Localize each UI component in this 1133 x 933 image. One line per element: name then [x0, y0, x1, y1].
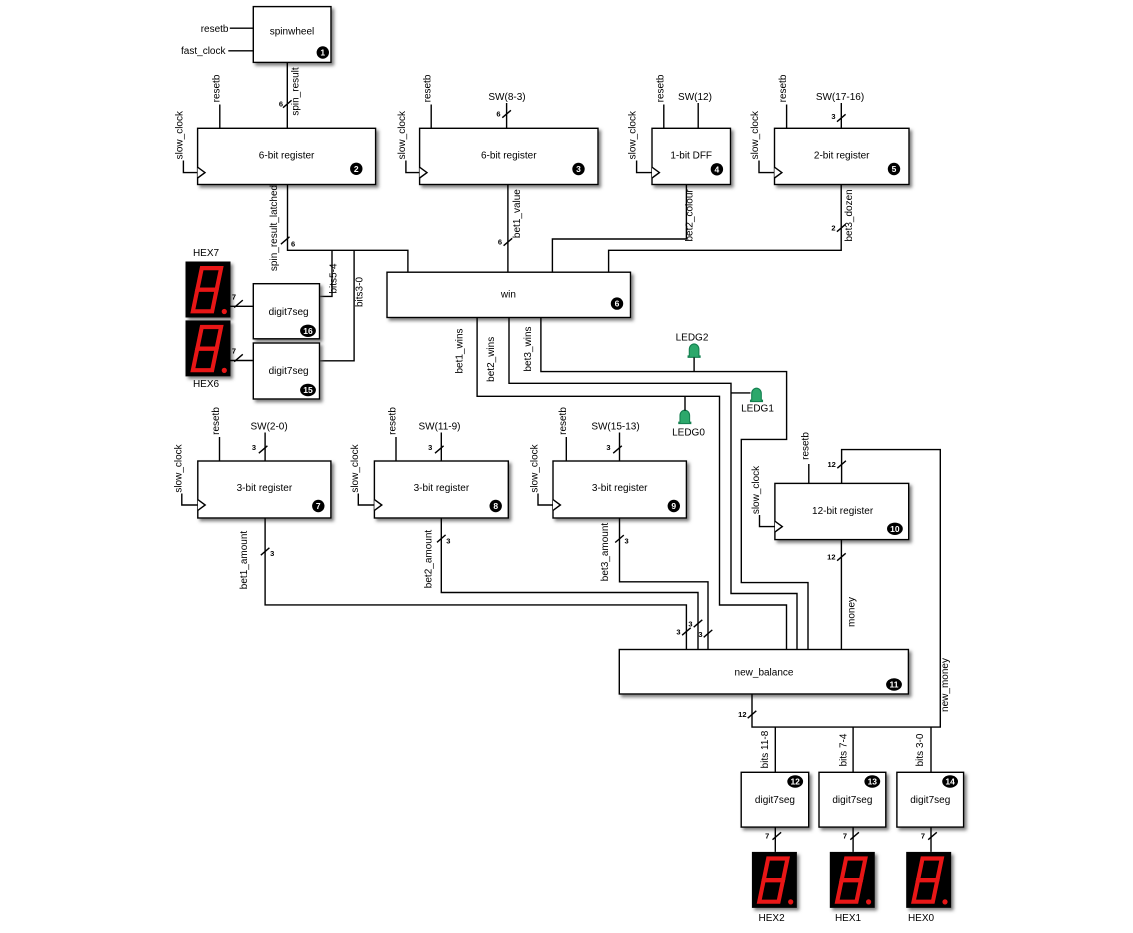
- svg-text:slow_clock: slow_clock: [174, 110, 185, 159]
- svg-text:digit7seg: digit7seg: [910, 795, 950, 806]
- svg-text:spin_result: spin_result: [290, 67, 301, 116]
- svg-text:13: 13: [868, 777, 878, 787]
- wire digit7seg to HEX display (bus 7): [921, 827, 937, 852]
- wire bits 7-4 tap: [838, 727, 853, 772]
- input SW(15-13) (bus 3): [591, 422, 639, 462]
- svg-text:resetb: resetb: [211, 74, 222, 102]
- svg-text:7: 7: [232, 293, 236, 302]
- svg-text:bet2_wins: bet2_wins: [486, 337, 497, 382]
- svg-text:12: 12: [738, 710, 746, 719]
- svg-text:digit7seg: digit7seg: [755, 795, 795, 806]
- block U12 digit7seg: [741, 772, 809, 827]
- svg-text:3: 3: [831, 112, 835, 121]
- svg-text:new_balance: new_balance: [735, 667, 794, 678]
- svg-text:digit7seg: digit7seg: [269, 307, 309, 318]
- reset input resetb (U5): [778, 74, 789, 128]
- svg-text:7: 7: [765, 832, 769, 841]
- wire bits 3-0 tap: [915, 727, 931, 772]
- svg-text:digit7seg: digit7seg: [269, 366, 309, 377]
- svg-text:resetb: resetb: [201, 24, 229, 35]
- wire spin_result_latched (bus 6): [269, 185, 408, 273]
- svg-text:12: 12: [827, 553, 835, 562]
- clock input slow_clock (U5): [750, 110, 775, 173]
- wire bet2_colour: [552, 185, 695, 273]
- clock input slow_clock (U10): [751, 465, 775, 527]
- clock input slow_clock (U3): [397, 110, 420, 173]
- clock input slow_clock (U4): [628, 110, 652, 173]
- wire digit7seg to HEX display (bus 7): [765, 827, 781, 852]
- svg-text:resetb: resetb: [388, 407, 399, 435]
- input SW(17-16) (bus): [816, 92, 864, 128]
- wire bet1_wins: [454, 318, 786, 650]
- svg-text:3: 3: [576, 164, 581, 174]
- wire bet2_wins: [486, 318, 797, 650]
- svg-text:resetb: resetb: [211, 407, 222, 435]
- svg-text:bits 11-8: bits 11-8: [760, 730, 771, 768]
- svg-text:bet1_value: bet1_value: [512, 189, 523, 238]
- svg-text:7: 7: [921, 832, 925, 841]
- svg-text:15: 15: [303, 385, 313, 395]
- svg-text:3: 3: [606, 443, 610, 452]
- svg-text:8: 8: [493, 501, 498, 511]
- wire bet3_wins: [523, 318, 808, 650]
- block U13 digit7seg: [819, 772, 886, 827]
- wire bits 11-8 tap: [760, 727, 775, 772]
- svg-text:HEX6: HEX6: [193, 379, 220, 390]
- svg-text:digit7seg: digit7seg: [832, 795, 872, 806]
- block U15 digit7seg: [253, 343, 319, 399]
- svg-text:SW(15-13): SW(15-13): [591, 422, 639, 433]
- svg-text:bet1_amount: bet1_amount: [239, 531, 250, 590]
- input fast_clock to spinwheel: [181, 46, 253, 57]
- svg-text:resetb: resetb: [800, 432, 811, 460]
- svg-text:3: 3: [446, 536, 450, 545]
- svg-text:win: win: [500, 290, 516, 301]
- wire HEX6 to digit7seg U15 (bus 7): [231, 347, 254, 362]
- input SW(2-0) (bus 3): [250, 422, 287, 462]
- svg-text:3: 3: [270, 549, 274, 558]
- svg-text:6: 6: [279, 100, 283, 109]
- svg-text:3: 3: [676, 628, 680, 637]
- clock input slow_clock (U9): [530, 443, 554, 505]
- reset input resetb (U2): [211, 74, 222, 128]
- svg-text:HEX1: HEX1: [835, 913, 862, 924]
- svg-text:3-bit register: 3-bit register: [237, 483, 293, 494]
- svg-text:new_money: new_money: [940, 658, 951, 712]
- svg-text:12: 12: [790, 777, 800, 787]
- svg-text:7: 7: [316, 501, 321, 511]
- svg-text:HEX7: HEX7: [193, 248, 220, 259]
- svg-text:3: 3: [698, 630, 702, 639]
- svg-text:5: 5: [892, 164, 897, 174]
- block U10 12-bit register: [775, 483, 909, 539]
- svg-text:slow_clock: slow_clock: [397, 110, 408, 159]
- svg-text:bits 3-0: bits 3-0: [915, 733, 926, 766]
- svg-text:16: 16: [303, 326, 313, 336]
- svg-text:slow_clock: slow_clock: [628, 110, 639, 159]
- display HEX7: [186, 248, 231, 318]
- svg-text:14: 14: [945, 777, 955, 787]
- svg-text:LEDG2: LEDG2: [676, 333, 709, 344]
- wire bits5-4 branch to digit7seg U16: [320, 250, 340, 296]
- block U8 3-bit register: [374, 461, 508, 518]
- svg-text:6: 6: [496, 110, 500, 119]
- svg-text:slow_clock: slow_clock: [530, 443, 541, 492]
- svg-text:LEDG1: LEDG1: [741, 404, 774, 415]
- reset input resetb (U3): [423, 74, 434, 128]
- display HEX2: [752, 852, 797, 924]
- svg-text:1-bit DFF: 1-bit DFF: [670, 151, 712, 162]
- LED LEDG1: [731, 388, 774, 414]
- svg-text:bet3_amount: bet3_amount: [600, 523, 611, 582]
- reset input resetb (U7): [211, 407, 222, 461]
- svg-text:4: 4: [715, 164, 720, 174]
- svg-text:2-bit register: 2-bit register: [814, 151, 870, 162]
- clock input slow_clock (U8): [350, 443, 375, 505]
- reset input resetb (U9): [558, 407, 569, 461]
- wire HEX7 to digit7seg U16 (bus 7): [231, 293, 254, 308]
- svg-text:SW(17-16): SW(17-16): [816, 92, 864, 103]
- svg-text:slow_clock: slow_clock: [173, 443, 184, 492]
- display HEX1: [830, 852, 875, 924]
- svg-text:fast_clock: fast_clock: [181, 46, 226, 57]
- wire digit7seg to HEX display (bus 7): [843, 827, 859, 852]
- reset input resetb (U10): [800, 432, 811, 484]
- svg-text:resetb: resetb: [655, 74, 666, 102]
- wire spin_result (bus 6): [279, 62, 302, 128]
- bus-width marks at new_balance amount inputs: [676, 620, 712, 640]
- block U6 win: [387, 272, 631, 317]
- wire bet2_amount (bus 3): [423, 518, 698, 650]
- svg-text:3-bit register: 3-bit register: [414, 483, 470, 494]
- svg-text:1: 1: [320, 48, 325, 58]
- svg-text:bits5-4: bits5-4: [329, 263, 340, 293]
- wire bet1_value (bus 6): [498, 185, 523, 273]
- svg-text:SW(8-3): SW(8-3): [488, 92, 525, 103]
- wire bet1_amount (bus 3): [239, 518, 686, 650]
- svg-text:LEDG0: LEDG0: [672, 427, 705, 438]
- svg-text:6: 6: [498, 238, 502, 247]
- svg-text:2: 2: [831, 224, 835, 233]
- block U14 digit7seg: [897, 772, 964, 827]
- wire bet3_amount (bus 3): [600, 518, 708, 650]
- svg-text:spin_result_latched: spin_result_latched: [269, 185, 280, 271]
- block U7 3-bit register: [198, 461, 331, 518]
- wire money (bus 12): [827, 540, 857, 650]
- display HEX6: [186, 320, 231, 390]
- block U3 6-bit register: [420, 128, 598, 184]
- svg-text:12-bit register: 12-bit register: [812, 506, 874, 517]
- svg-text:9: 9: [671, 501, 676, 511]
- svg-text:bet1_wins: bet1_wins: [454, 328, 465, 373]
- svg-text:SW(12): SW(12): [678, 92, 712, 103]
- svg-text:resetb: resetb: [558, 407, 569, 435]
- wire new_money feedback (bus 12): [738, 450, 951, 727]
- svg-text:SW(11-9): SW(11-9): [418, 422, 460, 433]
- svg-text:3: 3: [688, 620, 692, 629]
- reset input resetb (U4): [655, 74, 666, 128]
- block U4 1-bit DFF: [652, 128, 731, 184]
- input resetb to spinwheel: [201, 24, 254, 35]
- input SW(8-3) (bus 6): [488, 92, 525, 128]
- svg-text:HEX2: HEX2: [759, 913, 786, 924]
- clock input slow_clock (U2): [174, 110, 197, 173]
- wire bits3-0 branch to digit7seg U15: [320, 250, 366, 360]
- svg-text:6-bit register: 6-bit register: [481, 151, 537, 162]
- svg-text:3: 3: [428, 443, 432, 452]
- svg-text:slow_clock: slow_clock: [350, 443, 361, 492]
- svg-text:bits 7-4: bits 7-4: [838, 733, 849, 766]
- svg-text:12: 12: [827, 460, 835, 469]
- block U5 2-bit register: [775, 128, 910, 184]
- input SW(11-9) (bus 3): [418, 422, 460, 462]
- LED LEDG2: [676, 333, 709, 372]
- block U9 3-bit register: [553, 461, 686, 518]
- clock input slow_clock (U7): [173, 443, 198, 505]
- svg-text:HEX0: HEX0: [908, 913, 935, 924]
- svg-text:2: 2: [354, 164, 359, 174]
- svg-text:slow_clock: slow_clock: [750, 110, 761, 159]
- svg-text:6: 6: [615, 299, 620, 309]
- block U2 6-bit register: [198, 128, 376, 184]
- svg-text:6: 6: [291, 240, 295, 249]
- block U1 spinwheel: [253, 7, 331, 63]
- svg-text:3: 3: [252, 443, 256, 452]
- wire bet3_dozen (bus 2): [609, 185, 855, 273]
- svg-text:7: 7: [843, 832, 847, 841]
- svg-text:SW(2-0): SW(2-0): [250, 422, 287, 433]
- svg-text:money: money: [847, 597, 858, 627]
- block U16 digit7seg: [253, 284, 319, 339]
- reset input resetb (U8): [388, 407, 399, 461]
- svg-text:resetb: resetb: [423, 74, 434, 102]
- svg-text:slow_clock: slow_clock: [751, 465, 762, 514]
- block U11 new_balance: [619, 650, 908, 695]
- svg-text:bet3_wins: bet3_wins: [523, 326, 534, 371]
- display HEX0: [906, 852, 951, 924]
- svg-text:bet3_dozen: bet3_dozen: [844, 189, 855, 241]
- LED LEDG0: [672, 396, 705, 438]
- svg-text:11: 11: [890, 680, 899, 690]
- input SW(12): [678, 92, 712, 128]
- svg-text:bet2_amount: bet2_amount: [423, 530, 434, 589]
- svg-text:resetb: resetb: [778, 74, 789, 102]
- svg-text:6-bit register: 6-bit register: [259, 151, 315, 162]
- svg-text:3: 3: [625, 537, 629, 546]
- svg-text:10: 10: [890, 524, 900, 534]
- svg-text:spinwheel: spinwheel: [270, 27, 314, 38]
- svg-text:bet2_colour: bet2_colour: [685, 189, 696, 242]
- svg-text:7: 7: [232, 347, 236, 356]
- svg-text:3-bit register: 3-bit register: [592, 483, 648, 494]
- svg-text:bits3-0: bits3-0: [355, 277, 366, 307]
